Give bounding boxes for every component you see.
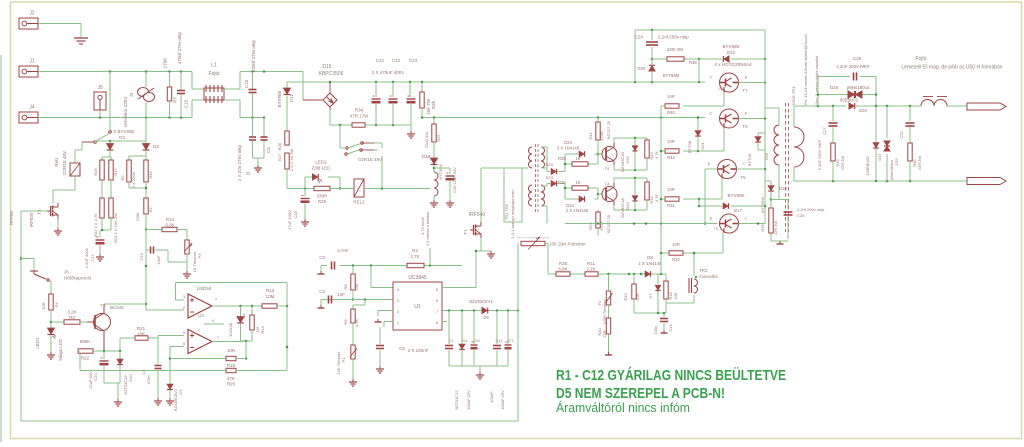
wire N rail	[38, 116, 192, 119]
svg-text:BYT08: BYT08	[687, 140, 692, 153]
resistor R27	[277, 129, 289, 161]
resistor R28	[285, 149, 294, 172]
wire bottom rail	[21, 243, 518, 421]
op-amp U2A	[183, 286, 218, 323]
wire R36 C20 ground	[771, 233, 788, 241]
svg-text:Kimeneti feszültség beállítás: Kimeneti feszültség beállítás	[517, 236, 551, 240]
svg-text:R30: R30	[558, 180, 566, 185]
svg-text:D16: D16	[764, 152, 769, 160]
output terminal negative	[967, 178, 1006, 185]
IGBT T7	[710, 73, 749, 93]
wire join right chain	[129, 182, 147, 198]
wire snubber loop	[817, 77, 878, 108]
wire fan branch	[145, 72, 147, 118]
wire REL2 to node	[364, 156, 430, 190]
svg-text:R40: R40	[667, 110, 675, 115]
ground at P1	[349, 379, 357, 386]
svg-text:C25: C25	[899, 131, 904, 139]
svg-text:22R 3W: 22R 3W	[840, 156, 845, 171]
svg-text:BZV85C18: BZV85C18	[620, 151, 625, 171]
wire R21 left	[119, 338, 121, 351]
svg-text:D11: D11	[289, 94, 294, 102]
transistor T9	[602, 120, 617, 171]
svg-text:10M: 10M	[266, 294, 275, 299]
diode D21	[687, 119, 705, 154]
capacitor C24	[635, 30, 690, 60]
svg-text:2 X 220K: 2 X 220K	[131, 171, 136, 188]
svg-text:LED2: LED2	[315, 160, 327, 165]
wire pin7 row / Vref rail	[442, 309, 519, 312]
svg-text:1:1:1 arányú meghajtó trafó: 1:1:1 arányú meghajtó trafó	[510, 189, 515, 239]
svg-text:D8: D8	[647, 255, 653, 260]
svg-text:1N4148: 1N4148	[228, 322, 233, 337]
wire opamp2 output	[204, 324, 246, 342]
wire R8 to pin3 row	[352, 290, 355, 301]
driver transformer TR1 TR2	[504, 144, 545, 238]
diode D8	[638, 255, 662, 277]
svg-text:T9: T9	[605, 166, 610, 171]
svg-text:D6: D6	[483, 315, 489, 320]
capacitor C7	[500, 311, 512, 410]
resistor R43	[645, 140, 659, 170]
svg-text:Jz: Jz	[246, 171, 251, 176]
resistor R34	[350, 108, 370, 128]
suppressor D29	[884, 106, 899, 181]
potentiometer	[517, 236, 587, 250]
svg-text:T4: T4	[605, 181, 610, 186]
svg-text:IRF830: IRF830	[29, 212, 34, 227]
wire right column	[764, 30, 767, 224]
svg-text:220K: 220K	[135, 212, 140, 222]
svg-text:D20: D20	[637, 66, 645, 71]
wire mid left chain	[102, 180, 111, 198]
capacitor C4	[141, 338, 162, 398]
capacitor C9	[466, 311, 478, 410]
svg-text:R31: R31	[667, 203, 675, 208]
diode D23	[546, 162, 557, 174]
wire T7 emitter	[739, 81, 767, 84]
svg-text:D10: D10	[128, 374, 133, 382]
wire T8 emitter	[739, 118, 766, 120]
svg-text:P3: P3	[197, 253, 202, 259]
wire rail after L1 top	[240, 70, 287, 73]
svg-text:10nF: 10nF	[156, 255, 161, 265]
zener D10	[117, 351, 133, 395]
svg-text:D24: D24	[564, 140, 572, 145]
ground at C4	[154, 398, 162, 405]
wire T5 gate	[683, 178, 722, 200]
svg-text:T5: T5	[740, 175, 746, 180]
capacitor C3	[319, 248, 349, 271]
IGBT T8	[710, 109, 749, 129]
op-amp U2B	[183, 330, 220, 354]
svg-text:BYT56M: BYT56M	[438, 164, 443, 180]
svg-text:R35: R35	[431, 100, 436, 109]
wire P1 to ground	[352, 359, 354, 379]
svg-text:150EBU02: 150EBU02	[865, 156, 870, 176]
svg-text:D13: D13	[546, 175, 554, 180]
svg-text:10R: 10R	[667, 187, 675, 192]
svg-text:470R: 470R	[599, 221, 604, 231]
wire P3 to ground	[186, 254, 188, 271]
diode D3	[107, 141, 114, 157]
svg-text:J4: J4	[29, 105, 35, 111]
svg-text:C1: C1	[448, 338, 454, 343]
diode D2	[143, 141, 160, 156]
svg-text:220nf 275v mkp: 220nf 275v mkp	[251, 39, 256, 72]
capacitor C6	[237, 118, 256, 182]
svg-text:E: E	[745, 111, 748, 116]
svg-text:D29: D29	[894, 158, 899, 166]
ground at C14	[661, 330, 668, 333]
trimmer P1	[336, 345, 357, 374]
wire R37 to D18	[433, 142, 435, 158]
wire R9 to trimmer P1	[352, 323, 354, 345]
wire lower cell right	[614, 177, 647, 212]
wire split left chain	[102, 151, 111, 160]
wire pin2 row	[378, 311, 393, 317]
relay coil Rel1	[70, 163, 80, 176]
wire opamp feedback top	[176, 283, 289, 371]
svg-text:100n: 100n	[653, 326, 658, 335]
diode D24	[557, 140, 585, 157]
svg-text:1K: 1K	[575, 156, 580, 161]
wire LED2 loop	[305, 177, 341, 190]
wire bridge minus rail	[330, 110, 411, 131]
wire phase to bridge	[287, 72, 323, 101]
svg-text:LMD58: LMD58	[197, 286, 212, 291]
capacitor C5	[261, 118, 272, 159]
trimmer P3	[184, 240, 202, 272]
ground at D9	[166, 398, 174, 405]
svg-text:100uF 25V: 100uF 25V	[466, 390, 471, 410]
resistor R22	[78, 339, 93, 361]
wire pin3 row	[327, 298, 393, 301]
wire upper cell right	[614, 137, 647, 172]
svg-text:C2: C2	[319, 289, 325, 294]
wire coil to T3 drain	[53, 176, 75, 203]
wire T1 source	[475, 238, 491, 252]
wire T8 gate	[683, 128, 724, 152]
resistor R32	[661, 242, 683, 262]
svg-text:5,8K: 5,8K	[558, 267, 567, 272]
wire split right chain	[129, 156, 146, 160]
svg-text:2 X 2,7K 3W: 2 X 2,7K 3W	[289, 149, 294, 172]
svg-text:80EBU02: 80EBU02	[840, 98, 859, 103]
resistor R39	[558, 156, 588, 166]
wire R22 left down	[78, 350, 80, 352]
ground at C23	[407, 131, 415, 138]
relay coil REL2	[353, 179, 365, 205]
svg-text:J1: J1	[29, 59, 35, 65]
svg-text:3,2K: 3,2K	[67, 310, 76, 315]
svg-text:D17: D17	[734, 208, 742, 213]
resistor R21	[120, 326, 158, 340]
svg-text:3,3K: 3,3K	[354, 319, 359, 328]
svg-text:C15: C15	[184, 99, 189, 108]
wire TR3 connections	[666, 252, 695, 303]
svg-text:C: C	[745, 216, 748, 221]
label D3	[109, 129, 134, 140]
zener D25	[620, 138, 638, 172]
capacitor C26	[836, 56, 870, 81]
svg-text:R19: R19	[623, 293, 628, 301]
diode D26	[840, 98, 867, 114]
svg-text:D18: D18	[422, 154, 431, 159]
svg-text:33R: 33R	[635, 293, 640, 300]
labels cap row	[448, 338, 514, 343]
svg-text:T1: T1	[463, 229, 468, 235]
svg-text:Zöld LED: Zöld LED	[312, 166, 332, 171]
ground at pin2	[375, 319, 382, 322]
resistor R25	[314, 186, 330, 204]
svg-text:R23 2 X 2,7K: R23 2 X 2,7K	[93, 213, 98, 237]
resistor R7	[163, 58, 178, 118]
transistor T4	[602, 181, 617, 233]
svg-text:R37: R37	[436, 134, 441, 142]
diode D7	[648, 274, 661, 313]
svg-text:470R: 470R	[599, 131, 604, 141]
svg-text:BC546: BC546	[110, 305, 124, 310]
ground at C8	[376, 366, 384, 373]
ground at P3	[183, 271, 191, 278]
svg-text:C27: C27	[822, 127, 827, 135]
svg-text:R13: R13	[260, 326, 265, 334]
ground at C17	[96, 254, 104, 261]
wire R25 to REL2	[330, 188, 354, 190]
svg-text:47uF 100V: 47uF 100V	[287, 210, 292, 230]
wire secondary bottom leads	[541, 184, 550, 224]
svg-text:C: C	[710, 111, 713, 116]
svg-text:U2: U2	[198, 313, 204, 318]
svg-text:C8: C8	[399, 346, 405, 351]
svg-text:T7: T7	[742, 88, 748, 93]
svg-text:EE65 TR4: EE65 TR4	[791, 86, 796, 105]
IC U1 UC3845	[393, 275, 442, 330]
wire R12 to right	[277, 305, 287, 307]
svg-text:R29: R29	[588, 222, 593, 230]
capacitor C15	[177, 31, 189, 117]
resistor R38	[667, 47, 697, 65]
wire sense bottom row	[634, 299, 666, 317]
relay contact REL2	[345, 142, 382, 162]
diode D22	[722, 44, 739, 62]
svg-text:BZT03C12: BZT03C12	[454, 390, 459, 410]
svg-text:10K Zárt Potméter: 10K Zárt Potméter	[549, 242, 586, 247]
svg-text:R5: R5	[148, 207, 153, 213]
svg-text:R39: R39	[558, 156, 566, 161]
capacitor C18	[287, 189, 310, 230]
svg-text:UC3845: UC3845	[408, 275, 427, 281]
svg-text:2,2nF 250V MKP: 2,2nF 250V MKP	[817, 139, 822, 170]
ground left bus	[114, 399, 122, 406]
wire T6 right lead	[739, 222, 766, 225]
ground at C2	[318, 305, 325, 308]
wire T7 gate	[683, 92, 724, 106]
svg-text:U1: U1	[414, 304, 421, 310]
svg-text:C17: C17	[90, 254, 95, 262]
resistor R42	[661, 139, 679, 160]
svg-text:C5: C5	[266, 147, 271, 153]
wire caps to earth	[253, 158, 265, 165]
wire aux winding to ground	[433, 196, 435, 200]
svg-text:BYT56M: BYT56M	[760, 197, 765, 213]
svg-text:E: E	[708, 161, 711, 166]
svg-text:470nf 275v mkp: 470nf 275v mkp	[177, 31, 182, 64]
wire T5 leads	[704, 169, 765, 225]
svg-text:2 X 1N4148: 2 X 1N4148	[557, 146, 580, 151]
svg-text:Rel1: Rel1	[54, 157, 59, 167]
svg-text:Fojtó: Fojtó	[208, 71, 219, 77]
zener D9	[167, 382, 183, 411]
svg-text:R27 - R28: R27 - R28	[277, 142, 282, 161]
wire D4 R13 bottom node	[241, 340, 253, 360]
ground at T3	[54, 228, 62, 235]
svg-text:C7: C7	[508, 338, 514, 343]
svg-text:R46: R46	[148, 171, 153, 179]
connector J1	[19, 59, 38, 78]
wire C13 to trimmer arm	[168, 250, 187, 262]
resistor R16	[93, 160, 104, 180]
svg-text:R20: R20	[227, 382, 236, 387]
svg-text:2 X 100nF: 2 X 100nF	[408, 348, 429, 353]
zener D6	[469, 299, 493, 320]
resistor R17	[109, 160, 118, 180]
svg-text:p6kei180ca: p6kei180ca	[847, 85, 870, 90]
resistor R3	[51, 310, 91, 325]
LED2	[312, 160, 332, 183]
capacitor C14	[653, 319, 673, 335]
svg-text:D25: D25	[625, 156, 630, 164]
svg-text:22R: 22R	[602, 330, 607, 337]
svg-text:330R: 330R	[317, 194, 329, 199]
svg-text:100uF 25V: 100uF 25V	[500, 390, 505, 410]
svg-text:G2R1E 48V: G2R1E 48V	[62, 151, 67, 175]
capacitor C2	[319, 289, 345, 305]
wire out of choke L1	[224, 72, 240, 118]
wire D17 row	[698, 199, 765, 207]
svg-text:R4: R4	[54, 302, 59, 308]
svg-text:R3: R3	[69, 315, 75, 320]
wire R20 row	[80, 351, 226, 371]
svg-text:R24 2 X 15K 3W: R24 2 X 15K 3W	[113, 213, 118, 243]
wire pin6	[169, 347, 184, 383]
svg-text:22R 3W: 22R 3W	[917, 156, 922, 171]
svg-text:R11: R11	[587, 261, 595, 266]
svg-text:R21: R21	[137, 326, 146, 331]
capacitor C10	[88, 358, 109, 389]
svg-text:REL2: REL2	[353, 200, 365, 205]
capacitor C23	[407, 82, 416, 125]
diode D18	[422, 154, 443, 180]
resistor R24	[109, 198, 118, 243]
svg-text:R9: R9	[343, 319, 348, 325]
diode D17	[723, 193, 744, 213]
svg-text:2 X 1N4148: 2 X 1N4148	[566, 208, 589, 213]
resistor R46	[144, 160, 153, 182]
svg-text:Áramváltó: Áramváltó	[699, 274, 719, 279]
resistor R26	[556, 261, 570, 276]
svg-text:22R 3W: 22R 3W	[773, 221, 778, 236]
wire lower cell	[558, 184, 607, 200]
svg-text:C8: C8	[474, 338, 480, 343]
svg-text:TR1 TR2: TR1 TR2	[504, 203, 509, 220]
svg-text:R15: R15	[227, 363, 236, 368]
diode D4	[228, 306, 246, 341]
svg-text:2,2nf 250v mkp: 2,2nf 250v mkp	[797, 207, 825, 212]
wire secondary top leads	[541, 147, 550, 172]
wire secondary bottom out	[794, 180, 967, 183]
svg-text:R8: R8	[343, 284, 348, 290]
wire R28 to REL2 rail	[287, 169, 314, 190]
ground at C18	[301, 219, 309, 226]
wire join left chain to C17	[100, 218, 111, 237]
svg-text:D2: D2	[153, 144, 159, 149]
wire D18 node	[433, 166, 450, 175]
ground at J2	[74, 38, 88, 44]
resistor R41	[588, 118, 604, 155]
capacitor C13	[139, 245, 168, 265]
resistor R40	[661, 94, 679, 115]
wire pin5	[158, 336, 184, 339]
svg-text:D1: D1	[462, 338, 468, 343]
svg-text:470n: 470n	[146, 376, 151, 385]
svg-text:LED1: LED1	[35, 337, 40, 349]
svg-text:2 X BYV96E: 2 X BYV96E	[109, 129, 134, 134]
capacitor C1	[445, 311, 453, 367]
svg-text:D9: D9	[178, 389, 183, 395]
LED1	[35, 328, 63, 361]
fan connector J3	[123, 88, 155, 128]
wire DC mid rail	[421, 116, 705, 119]
svg-text:C10: C10	[93, 373, 98, 381]
wire D22 row	[699, 58, 766, 61]
svg-text:C3: C3	[319, 255, 325, 260]
wire clamp mid row	[652, 58, 700, 82]
diode D11	[277, 82, 294, 129]
svg-text:2200 3W: 2200 3W	[424, 132, 429, 148]
svg-text:R6: R6	[120, 175, 125, 181]
wire T3 gate	[21, 211, 47, 214]
resistor R45	[908, 143, 922, 181]
wire pin2 from R5 column	[146, 309, 184, 311]
label IGBT group	[714, 62, 752, 67]
svg-text:C14: C14	[668, 324, 673, 332]
svg-text:100nF: 100nF	[489, 391, 494, 403]
wire bottom rail igbt	[565, 222, 718, 225]
inductor L1	[204, 63, 224, 104]
wire C10 D10 ground bus	[104, 383, 120, 399]
wire R4 to LED1	[50, 310, 53, 328]
ground at C20	[777, 241, 784, 244]
capacitor C21	[372, 82, 381, 125]
wire R15 right	[236, 358, 246, 360]
svg-text:BYT56M: BYT56M	[663, 73, 680, 78]
svg-text:R16: R16	[93, 168, 98, 176]
svg-text:10R: 10R	[227, 348, 236, 353]
svg-text:D3: D3	[119, 135, 125, 140]
svg-text:C: C	[743, 161, 746, 166]
svg-text:6,8K: 6,8K	[165, 223, 174, 228]
capacitor C25	[899, 106, 915, 143]
svg-text:C: C	[710, 75, 713, 80]
wire to Rel1 contact	[109, 72, 111, 131]
svg-text:4,7K: 4,7K	[654, 151, 659, 160]
svg-text:G: G	[718, 86, 721, 91]
svg-text:R22: R22	[81, 356, 90, 361]
svg-text:2,2nF 250V MKP: 2,2nF 250V MKP	[836, 64, 870, 69]
svg-text:2,2nf 250v mkp: 2,2nf 250v mkp	[658, 35, 689, 40]
